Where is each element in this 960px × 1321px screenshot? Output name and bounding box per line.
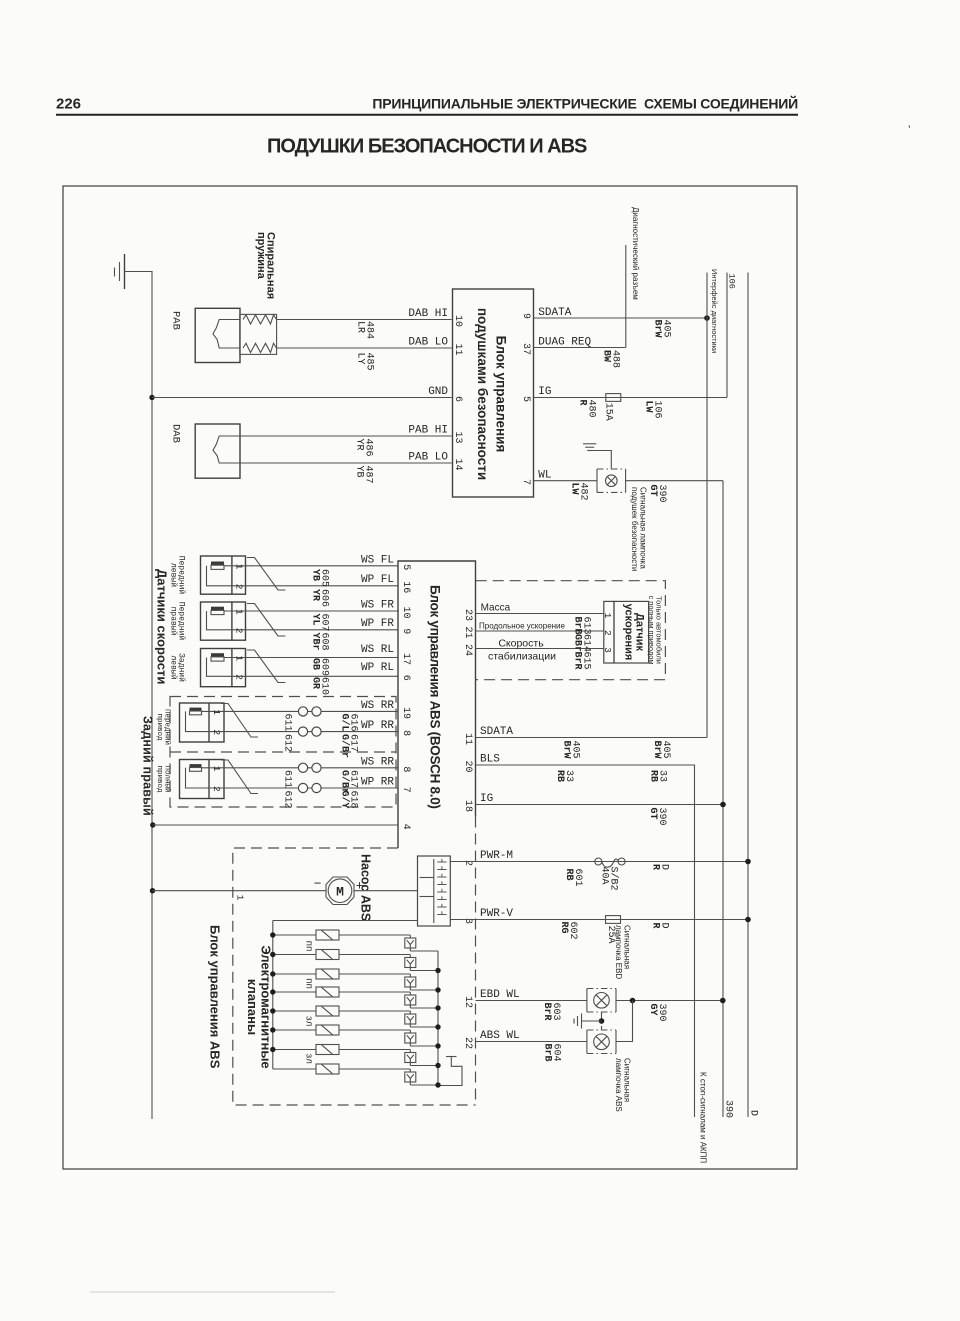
- svg-text:IG: IG: [480, 793, 493, 805]
- svg-text:2: 2: [234, 674, 245, 680]
- svg-text:17: 17: [400, 653, 411, 665]
- svg-text:DUAG REQ: DUAG REQ: [538, 337, 591, 349]
- svg-text:−: −: [314, 876, 322, 891]
- svg-text:9: 9: [520, 313, 531, 319]
- svg-text:WS FL: WS FL: [361, 555, 394, 567]
- svg-text:22: 22: [462, 1037, 473, 1049]
- svg-text:20: 20: [462, 760, 473, 772]
- svg-text:DAB: DAB: [170, 424, 182, 443]
- svg-text:зл: зл: [304, 1053, 314, 1064]
- svg-text:PAB LO: PAB LO: [408, 452, 448, 464]
- svg-text:6: 6: [452, 396, 463, 402]
- svg-text:DAB HI: DAB HI: [408, 308, 448, 320]
- svg-text:WP FR: WP FR: [361, 618, 394, 630]
- svg-text:2: 2: [211, 730, 222, 736]
- svg-text:GND: GND: [428, 386, 448, 398]
- svg-text:стабилизации: стабилизации: [488, 651, 556, 663]
- svg-text:1: 1: [234, 564, 245, 570]
- svg-text:611: 611: [282, 770, 293, 788]
- svg-text:5: 5: [400, 564, 411, 570]
- svg-text:405BrW: 405BrW: [651, 741, 671, 759]
- svg-text:+: +: [356, 878, 364, 893]
- svg-text:7: 7: [520, 479, 531, 485]
- svg-text:1: 1: [211, 709, 222, 715]
- svg-text:616G/L: 616G/L: [339, 714, 359, 732]
- svg-text:PWR-V: PWR-V: [480, 908, 513, 920]
- svg-text:DR: DR: [650, 864, 670, 870]
- svg-text:Переднийправый: Переднийправый: [169, 602, 186, 641]
- svg-text:13: 13: [452, 431, 463, 443]
- svg-text:EBD WL: EBD WL: [480, 989, 520, 1001]
- svg-text:405BrW: 405BrW: [561, 741, 581, 759]
- svg-text:611: 611: [282, 714, 293, 732]
- svg-text:33RB: 33RB: [554, 770, 574, 782]
- svg-text:8: 8: [400, 730, 411, 736]
- svg-text:зл: зл: [304, 1016, 314, 1027]
- svg-text:WS RL: WS RL: [361, 644, 394, 656]
- svg-text:WP RR: WP RR: [361, 777, 394, 789]
- svg-text:Сигнальная лампочкаподушек без: Сигнальная лампочкаподушек безопасности: [630, 487, 648, 571]
- svg-text:ПОДУШКИ БЕЗОПАСНОСТИ И ABS: ПОДУШКИ БЕЗОПАСНОСТИ И ABS: [267, 136, 587, 158]
- svg-text:15A: 15A: [603, 403, 614, 421]
- svg-text:Продольное ускорение: Продольное ускорение: [479, 622, 566, 631]
- svg-text:608YBr: 608YBr: [310, 633, 330, 651]
- svg-text:Задний правый: Задний правый: [141, 716, 155, 816]
- svg-text:Масса: Масса: [481, 603, 511, 614]
- svg-text:К стоп-сигналам и АКПП: К стоп-сигналам и АКПП: [699, 1072, 708, 1163]
- svg-text:21: 21: [462, 626, 473, 638]
- svg-text:11: 11: [462, 733, 473, 745]
- svg-text:12: 12: [462, 996, 473, 1008]
- svg-text:WP RL: WP RL: [361, 662, 394, 674]
- svg-text:PWR-M: PWR-M: [480, 850, 513, 862]
- svg-text:4: 4: [400, 824, 411, 830]
- svg-text:2: 2: [211, 786, 222, 792]
- svg-text:390: 390: [723, 1100, 734, 1118]
- svg-text:2: 2: [462, 860, 473, 866]
- svg-text:618G/Y: 618G/Y: [339, 791, 359, 809]
- svg-text:ПРИНЦИПИАЛЬНЫЕ ЭЛЕКТРИЧЕСКИЕ: ПРИНЦИПИАЛЬНЫЕ ЭЛЕКТРИЧЕСКИЕ СХЕМЫ СОЕДИ…: [372, 95, 798, 112]
- svg-text:пп: пп: [304, 978, 314, 989]
- svg-text:Только автомобилис полным прив: Только автомобилис полным приводом: [647, 595, 664, 664]
- svg-text:WS RR: WS RR: [361, 700, 394, 712]
- svg-text:Диагностический разъем: Диагностический разъем: [631, 207, 640, 300]
- svg-text:1: 1: [234, 609, 245, 615]
- svg-text:106: 106: [727, 274, 737, 289]
- svg-text:Блок управления ABS: Блок управления ABS: [208, 925, 223, 1069]
- svg-text:3: 3: [602, 647, 613, 653]
- svg-text:19: 19: [400, 707, 411, 719]
- svg-text:SDATA: SDATA: [538, 307, 571, 319]
- svg-text:24: 24: [462, 644, 473, 656]
- svg-text:612: 612: [282, 734, 293, 752]
- svg-text:DR: DR: [650, 923, 670, 929]
- svg-text:14: 14: [452, 458, 463, 470]
- svg-text:BLS: BLS: [480, 754, 500, 766]
- svg-text:2: 2: [602, 630, 613, 636]
- svg-text:WS FR: WS FR: [361, 600, 394, 612]
- svg-text:DAB LO: DAB LO: [408, 337, 448, 349]
- svg-text:5: 5: [520, 396, 531, 402]
- svg-text:2: 2: [234, 584, 245, 590]
- svg-text:Датчики скорости: Датчики скорости: [155, 569, 170, 684]
- svg-text:10: 10: [400, 606, 411, 618]
- svg-text:7: 7: [400, 787, 411, 793]
- svg-text:614GBr: 614GBr: [572, 634, 592, 652]
- svg-text:1: 1: [234, 655, 245, 661]
- svg-text:Интерфейс диагностики: Интерфейс диагностики: [710, 269, 719, 353]
- svg-text:11: 11: [452, 343, 463, 355]
- svg-text:9: 9: [400, 628, 411, 634]
- svg-text:10: 10: [452, 315, 463, 327]
- svg-text:3: 3: [462, 918, 473, 924]
- svg-text:SDATA: SDATA: [480, 726, 513, 738]
- svg-text:8: 8: [400, 766, 411, 772]
- svg-text:D: D: [748, 1110, 759, 1116]
- svg-text:23: 23: [462, 609, 473, 621]
- svg-text:M: M: [336, 885, 344, 900]
- svg-text:33RB: 33RB: [648, 770, 668, 782]
- svg-text:2: 2: [234, 628, 245, 634]
- svg-text:Скорость: Скорость: [498, 638, 544, 650]
- svg-text:6: 6: [400, 675, 411, 681]
- svg-text:WP FL: WP FL: [361, 574, 394, 586]
- svg-text:16: 16: [400, 581, 411, 593]
- svg-text:PAB: PAB: [170, 311, 182, 330]
- svg-text:Полныйпривод: Полныйпривод: [155, 765, 172, 793]
- svg-text:37: 37: [520, 343, 531, 355]
- svg-text:1: 1: [602, 613, 613, 619]
- svg-text:18: 18: [462, 800, 473, 812]
- svg-text:226: 226: [56, 96, 81, 113]
- svg-text:WP RR: WP RR: [361, 720, 394, 732]
- svg-text:603BrR: 603BrR: [541, 1003, 561, 1021]
- svg-text:1: 1: [211, 766, 222, 772]
- svg-text:Блок управления ABS (BOSCH 8.0: Блок управления ABS (BOSCH 8.0): [428, 585, 443, 809]
- svg-text:612: 612: [282, 791, 293, 809]
- svg-text:1: 1: [235, 895, 246, 901]
- svg-text:WS RR: WS RR: [361, 757, 394, 769]
- svg-text:Переднийпривод: Переднийпривод: [155, 709, 172, 745]
- svg-text:’: ’: [908, 124, 910, 136]
- svg-text:IG: IG: [538, 386, 551, 398]
- svg-text:613BrB: 613BrB: [572, 617, 592, 635]
- svg-text:615BrR: 615BrR: [572, 652, 592, 670]
- svg-text:WL: WL: [538, 470, 551, 482]
- svg-text:Заднийлевый: Заднийлевый: [169, 653, 186, 682]
- svg-text:ABS WL: ABS WL: [480, 1030, 520, 1042]
- svg-text:405BrW: 405BrW: [652, 320, 672, 338]
- svg-text:пп: пп: [304, 941, 314, 952]
- svg-text:604BrB: 604BrB: [542, 1044, 562, 1062]
- svg-text:PAB HI: PAB HI: [408, 425, 448, 437]
